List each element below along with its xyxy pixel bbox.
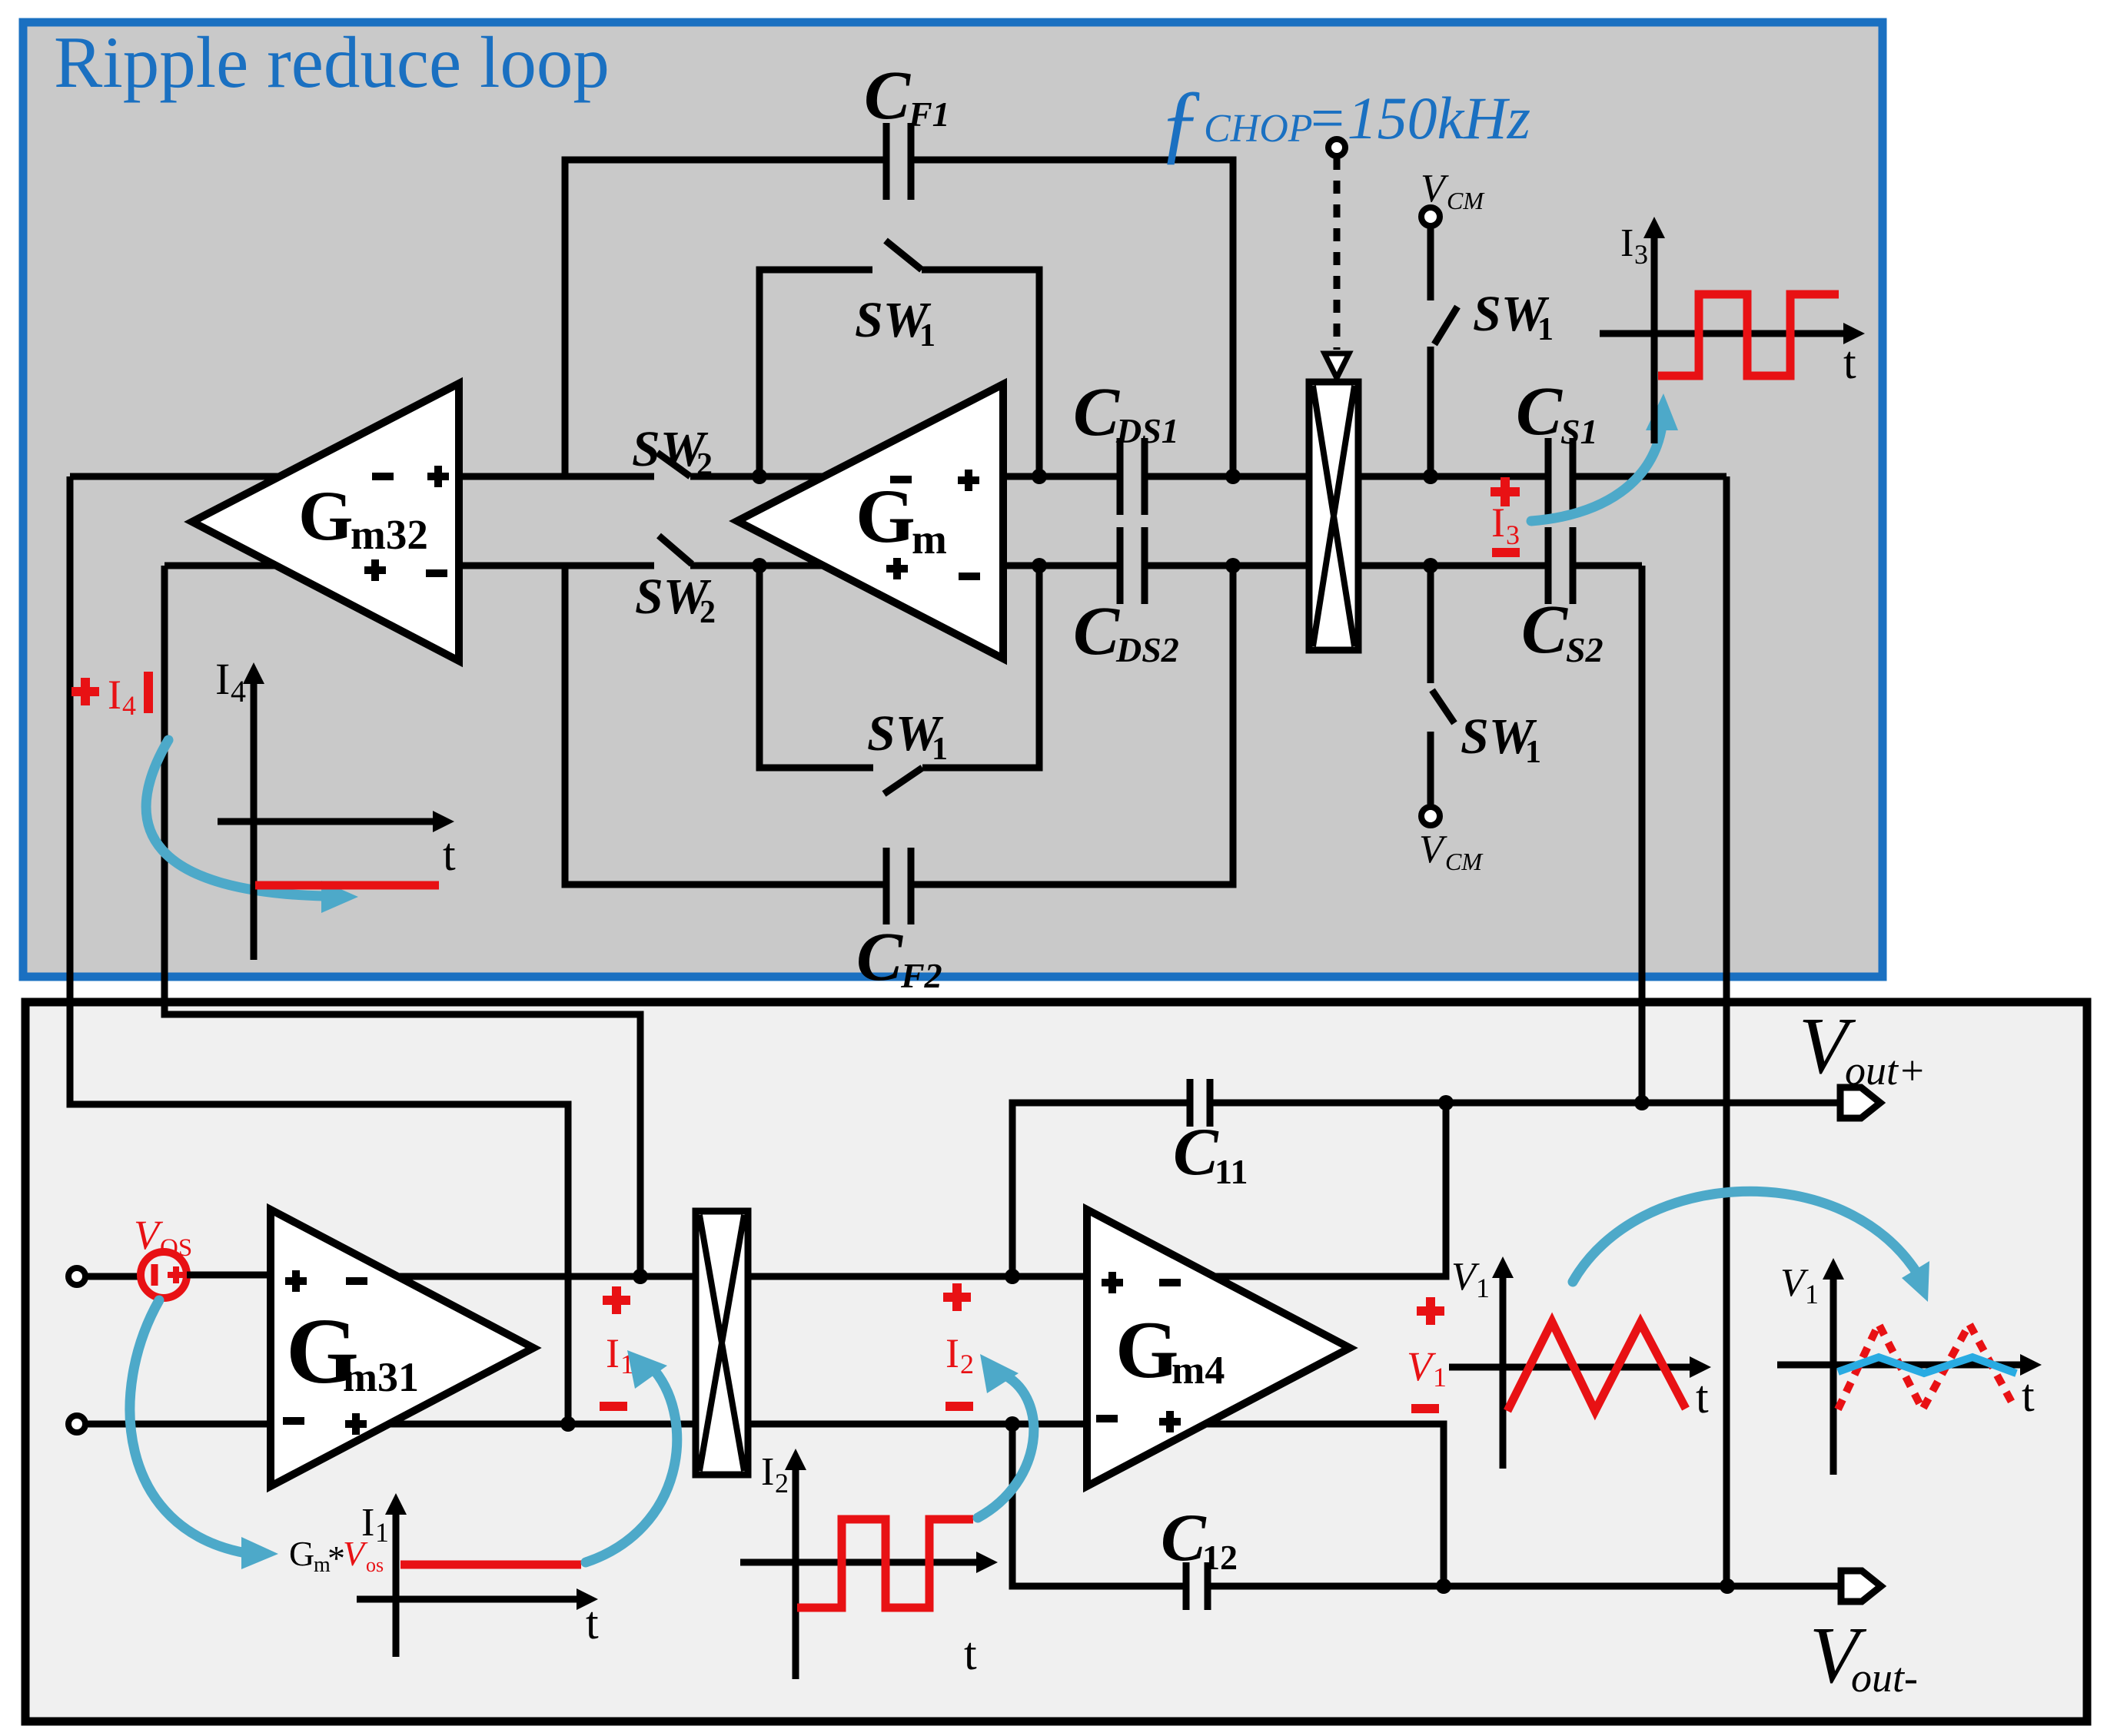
- wire SW1 upper feedback loop: [759, 270, 1039, 476]
- svg-text:I: I: [215, 654, 230, 704]
- wire Gm32 right bottom to SW2: [459, 563, 654, 569]
- junction dot Vout- vertical: [1720, 1578, 1735, 1594]
- chopper bottom box: [696, 1211, 748, 1475]
- capacitor CF1 wire: [565, 160, 1233, 476]
- capacitor C11: [1190, 1079, 1210, 1127]
- junction dot VCM bottom: [1423, 558, 1438, 573]
- I2 blue arrow: [978, 1376, 1034, 1518]
- wire top rail to CS1: [1358, 473, 1726, 480]
- V1 graph2 blue wave: [1838, 1357, 2016, 1373]
- svg-text:I: I: [761, 1450, 774, 1494]
- VOS blue arrow: [130, 1300, 246, 1553]
- svg-text:1: 1: [1433, 1362, 1447, 1392]
- wire Gm31 output top: [397, 1273, 696, 1280]
- svg-text:C: C: [1073, 593, 1120, 669]
- capacitor C12: [1186, 1562, 1208, 1610]
- Gm32 input marks: [372, 466, 449, 487]
- wire chopper to Gm4 bottom: [748, 1421, 1087, 1428]
- switch SW1 VCM bottom blade: [1432, 690, 1454, 723]
- svg-text:1: 1: [1476, 1273, 1490, 1303]
- junction dot VCM top: [1423, 469, 1438, 484]
- svg-text:2: 2: [775, 1468, 789, 1499]
- wire VCM top: [1427, 227, 1434, 476]
- svg-text:V: V: [343, 1534, 368, 1573]
- op-amp Gm4: [1087, 1210, 1350, 1486]
- op-amp Gm31: [271, 1210, 533, 1486]
- capacitor C12 wire: [1012, 1424, 1841, 1586]
- wire SW2 upper to Gm: [690, 473, 823, 480]
- svg-text:Ripple reduce loop: Ripple reduce loop: [54, 22, 610, 103]
- junction dot C11 right: [1438, 1095, 1454, 1110]
- wire Gm32 output bottom-left: [165, 563, 276, 569]
- svg-text:I: I: [1620, 221, 1633, 265]
- svg-text:I: I: [108, 672, 121, 718]
- fCHOP dashed control line: [1334, 157, 1341, 350]
- svg-text:C: C: [1516, 373, 1563, 450]
- svg-text:I: I: [1491, 500, 1505, 546]
- source VOS: [141, 1252, 187, 1298]
- svg-text:S2: S2: [1566, 630, 1604, 669]
- junction dot CF1 right: [1225, 469, 1241, 484]
- wire input top to Vos: [85, 1273, 141, 1280]
- fCHOP arrowhead: [1324, 354, 1349, 378]
- svg-text:os: os: [366, 1554, 384, 1576]
- wire long vertical right to Vout-: [1723, 476, 1730, 1586]
- capacitor CS2: [1548, 527, 1573, 604]
- svg-text:C: C: [1521, 592, 1568, 668]
- chopper top box: [1309, 382, 1358, 650]
- wire Gm32 output top-left: [70, 473, 280, 480]
- svg-text:C: C: [1173, 1115, 1219, 1190]
- op-amp Gm: [737, 384, 1003, 659]
- I4 red polarity marks: [71, 678, 99, 705]
- svg-text:C: C: [1161, 1501, 1207, 1575]
- I4 graph red line: [255, 881, 439, 890]
- wire Gm31 output bottom: [390, 1421, 696, 1428]
- input terminal minus: [68, 1416, 85, 1432]
- I3 graph axes: [1600, 234, 1845, 443]
- I2 red polarity marks: [943, 1283, 971, 1311]
- Gm4 input marks: [1102, 1272, 1181, 1293]
- wire Gm right top rail: [1003, 473, 1309, 480]
- svg-text:1: 1: [375, 1517, 389, 1548]
- svg-text:I: I: [945, 1330, 959, 1376]
- bottom main box: [25, 1002, 2087, 1721]
- wire net B: Gm32 lower output down to Gm31 upper rail: [165, 566, 640, 1276]
- op-amp Gm32: [192, 383, 459, 661]
- svg-text:1: 1: [1805, 1279, 1819, 1309]
- VCM bottom terminal: [1421, 807, 1440, 825]
- svg-text:S1: S1: [1560, 412, 1598, 451]
- capacitor CF2 wire: [565, 566, 1233, 885]
- I2 graph axes: [740, 1466, 978, 1679]
- svg-text:m: m: [912, 516, 947, 563]
- svg-text:1: 1: [1537, 312, 1554, 347]
- svg-text:3: 3: [1506, 519, 1520, 550]
- svg-text:DS1: DS1: [1115, 411, 1179, 450]
- I3 red polarity plus: [1491, 477, 1520, 506]
- wire Gm4 output bottom: [1205, 1424, 1444, 1586]
- junction dot SW1 upper right: [1032, 469, 1047, 484]
- wire Gm4 output top: [1215, 1103, 1446, 1276]
- wire chopper to Gm4 top: [748, 1273, 1087, 1280]
- junction dot C12 left on Gm4 input: [1005, 1416, 1020, 1432]
- input terminal plus: [68, 1268, 85, 1285]
- VCM top terminal: [1421, 207, 1440, 226]
- svg-text:C: C: [856, 919, 903, 995]
- svg-text:C: C: [864, 58, 911, 134]
- svg-text:m4: m4: [1171, 1349, 1225, 1392]
- wire SW1 lower feedback loop: [759, 566, 1039, 768]
- Gm input marks: [890, 470, 979, 491]
- switch SW1 upper blade: [886, 241, 922, 270]
- I1 graph red line: [400, 1561, 581, 1569]
- big blue arrow to right graph: [1573, 1191, 1919, 1282]
- junction dot C12 right: [1436, 1578, 1451, 1594]
- svg-text:G: G: [298, 476, 354, 555]
- switch SW2 lower blade: [659, 536, 692, 564]
- svg-text:out+: out+: [1845, 1047, 1926, 1094]
- junction dot SW2 upper / SW1: [752, 469, 767, 484]
- V1 graph2 axes: [1777, 1276, 2022, 1475]
- svg-text:m31: m31: [343, 1354, 419, 1400]
- wire VCM bottom: [1427, 566, 1434, 807]
- Gm31 input marks: [285, 1270, 367, 1292]
- I3 red polarity minus: [1492, 548, 1520, 557]
- svg-text:t: t: [964, 1628, 977, 1679]
- V1 red polarity marks: [1417, 1297, 1444, 1325]
- junction dot CF2 right: [1225, 558, 1241, 573]
- svg-text:t: t: [443, 829, 456, 880]
- svg-text:I: I: [606, 1330, 620, 1376]
- wire SW2 lower to Gm: [690, 563, 823, 569]
- wire Gm right bottom rail: [1003, 563, 1309, 569]
- wire net A: Gm32 upper output down to Gm31 lower rail: [70, 476, 568, 1424]
- switch SW1 lower blade: [884, 768, 922, 794]
- V1 graph2 red dashed wave: [1838, 1324, 2015, 1409]
- svg-text:t: t: [1843, 337, 1856, 388]
- wire Vos to Gm31: [187, 1272, 271, 1279]
- svg-text:t: t: [2022, 1370, 2035, 1421]
- capacitor C11 wire: [1012, 1103, 1840, 1276]
- junction dot SW1 lower right: [1032, 558, 1047, 573]
- I3 blue arrow: [1531, 430, 1661, 521]
- V1 graph1 axes: [1449, 1274, 1691, 1469]
- junction dot C11 left on Gm4 input: [1005, 1269, 1020, 1284]
- output arrow Vout-: [1841, 1571, 1881, 1602]
- capacitor CF1: [886, 123, 911, 200]
- fCHOP terminal: [1328, 139, 1345, 156]
- svg-text:CHOP: CHOP: [1204, 107, 1313, 151]
- svg-text:1: 1: [919, 318, 936, 354]
- svg-text:OS: OS: [160, 1234, 192, 1262]
- svg-text:V: V: [1421, 167, 1449, 211]
- I4 graph axes: [218, 680, 434, 960]
- svg-text:4: 4: [231, 674, 246, 709]
- svg-text:t: t: [586, 1598, 599, 1648]
- svg-text:1: 1: [932, 732, 948, 767]
- svg-text:F1: F1: [908, 95, 950, 134]
- junction dot Vout+ vertical: [1634, 1095, 1650, 1110]
- svg-text:t: t: [1696, 1372, 1709, 1422]
- I1 red polarity marks: [603, 1286, 630, 1314]
- junction dot SW2 lower / SW1: [752, 558, 767, 573]
- svg-text:m32: m32: [351, 511, 428, 558]
- svg-text:DS2: DS2: [1115, 630, 1179, 669]
- svg-text:ƒ: ƒ: [1158, 71, 1203, 172]
- svg-text:V: V: [1419, 828, 1447, 871]
- V1 graph1 red triangle wave: [1507, 1322, 1686, 1411]
- svg-text:11: 11: [1215, 1152, 1248, 1191]
- capacitor CDS1: [1120, 438, 1145, 515]
- output arrow Vout+: [1840, 1087, 1880, 1118]
- switch SW1 VCM top blade: [1434, 307, 1457, 344]
- capacitor CF2: [886, 848, 911, 924]
- wire input bottom to Gm31: [85, 1421, 271, 1428]
- I1 blue arrow: [586, 1371, 677, 1562]
- I1 graph axes: [357, 1511, 578, 1657]
- I3 graph red square wave: [1658, 294, 1839, 376]
- svg-text:C: C: [1073, 374, 1120, 450]
- wire Gm32 right top to SW2: [459, 473, 654, 480]
- junction dot net A on Gm31 lower rail: [560, 1416, 576, 1432]
- svg-text:2: 2: [960, 1349, 974, 1379]
- I4 blue arrow: [146, 740, 323, 896]
- svg-text:12: 12: [1202, 1538, 1238, 1577]
- svg-text:G: G: [1115, 1305, 1178, 1395]
- svg-text:G: G: [856, 473, 916, 559]
- capacitor CDS2: [1120, 527, 1145, 604]
- svg-text:2: 2: [700, 595, 716, 630]
- svg-text:out-: out-: [1851, 1655, 1918, 1701]
- svg-text:CM: CM: [1447, 187, 1485, 214]
- wire bottom rail to CS2: [1358, 563, 1642, 569]
- svg-text:4: 4: [122, 690, 136, 721]
- capacitor CS1: [1548, 438, 1573, 515]
- svg-text:CM: CM: [1445, 848, 1484, 875]
- ripple reduce loop box: [23, 22, 1883, 977]
- I2 graph red square wave: [797, 1519, 973, 1608]
- junction dot net B on Gm31 upper rail: [633, 1269, 648, 1284]
- svg-text:F2: F2: [900, 956, 942, 995]
- switch SW2 upper blade: [657, 453, 690, 476]
- svg-text:G: G: [289, 1534, 314, 1573]
- wire long vertical left to Vout+: [1639, 566, 1646, 1103]
- svg-text:1: 1: [1525, 735, 1541, 770]
- svg-text:3: 3: [1634, 239, 1648, 270]
